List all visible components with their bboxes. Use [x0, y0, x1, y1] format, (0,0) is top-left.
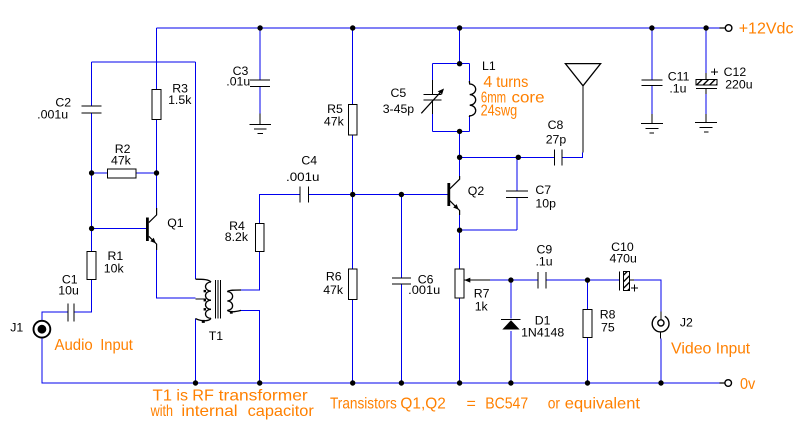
- svg-text:Q2: Q2: [468, 184, 485, 198]
- svg-text:Q1: Q1: [167, 216, 184, 230]
- svg-text:1.5k: 1.5k: [168, 93, 192, 107]
- svg-text:.001u: .001u: [286, 170, 320, 184]
- svg-text:capacitor: capacitor: [248, 403, 315, 420]
- svg-text:Q1,Q2: Q1,Q2: [400, 396, 445, 413]
- svg-text:.1u: .1u: [669, 81, 686, 95]
- svg-text:.01u: .01u: [226, 75, 250, 89]
- svg-text:Input: Input: [716, 341, 751, 358]
- svg-text:470u: 470u: [610, 252, 638, 266]
- svg-text:J2: J2: [680, 316, 693, 330]
- svg-text:3-45p: 3-45p: [383, 102, 415, 116]
- svg-text:=: =: [467, 396, 476, 413]
- svg-text:J1: J1: [10, 321, 23, 335]
- svg-text:Input: Input: [100, 337, 133, 354]
- svg-text:10k: 10k: [104, 262, 125, 276]
- svg-text:+12Vdc: +12Vdc: [739, 20, 794, 37]
- svg-text:27p: 27p: [546, 133, 567, 147]
- svg-text:internal: internal: [181, 403, 237, 420]
- svg-text:Transistors: Transistors: [330, 396, 397, 413]
- svg-text:220u: 220u: [725, 78, 753, 92]
- svg-text:10p: 10p: [535, 197, 556, 211]
- svg-text:0v: 0v: [740, 376, 755, 393]
- svg-text:.001u: .001u: [37, 108, 68, 122]
- svg-text:T1: T1: [209, 329, 224, 343]
- svg-text:L1: L1: [482, 59, 496, 73]
- svg-text:1k: 1k: [475, 300, 489, 314]
- svg-text:Video: Video: [671, 341, 711, 358]
- svg-text:C4: C4: [301, 154, 317, 168]
- svg-text:47k: 47k: [324, 115, 345, 129]
- svg-text:8.2k: 8.2k: [225, 230, 249, 244]
- svg-text:C7: C7: [535, 183, 551, 197]
- svg-text:equivalent: equivalent: [565, 396, 641, 413]
- svg-text:.001u: .001u: [408, 283, 440, 297]
- svg-text:R6: R6: [326, 269, 342, 283]
- svg-text:or: or: [548, 396, 561, 413]
- svg-text:10u: 10u: [58, 284, 79, 298]
- svg-text:75: 75: [601, 321, 615, 335]
- svg-text:24swg: 24swg: [481, 102, 518, 119]
- svg-text:C8: C8: [548, 118, 564, 132]
- svg-text:C5: C5: [391, 86, 407, 100]
- svg-text:47k: 47k: [323, 283, 344, 297]
- svg-text:R7: R7: [474, 287, 490, 301]
- svg-text:47k: 47k: [111, 154, 132, 168]
- svg-text:BC547: BC547: [485, 396, 528, 413]
- svg-text:with: with: [150, 403, 173, 420]
- svg-text:1N4148: 1N4148: [521, 326, 564, 340]
- svg-text:Audio: Audio: [55, 337, 93, 354]
- svg-text:.1u: .1u: [536, 254, 553, 268]
